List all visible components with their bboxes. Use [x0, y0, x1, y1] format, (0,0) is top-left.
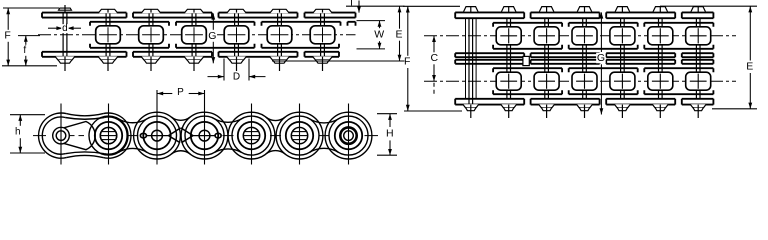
duplex outer plate pair 4 band 3, view C	[682, 60, 714, 64]
roller 7 horizontal centerline, view A	[314, 34, 332, 36]
duplex inner plate 1 edge 3, view C	[493, 68, 562, 72]
outer link plate pair 1 top band, view A	[42, 13, 127, 18]
pin head bottom, pin 3 view A step1	[141, 56, 161, 60]
duplex outer plate pair 1 band 1, view C	[455, 12, 524, 18]
duplex F top extension line	[403, 5, 460, 7]
inner link plate 3 bottom edge, view A	[262, 44, 340, 48]
svg-text:H: H	[386, 128, 394, 140]
inner link plate 1 bottom edge, view A	[90, 44, 169, 48]
svg-text:F: F	[4, 30, 10, 42]
outer link plate pair 2 top band, view A	[133, 13, 212, 18]
duplex outer plate pair 4 band 1, view C	[682, 12, 714, 18]
duplex roller 5 strand 2 rect, view C	[610, 72, 635, 90]
dimension G, view A	[212, 13, 214, 29]
pin 1 cross-section circle, view B	[56, 131, 66, 141]
F top extension line, view A	[3, 7, 59, 9]
link plate end contours at pin 3, view B	[134, 112, 181, 159]
roller, bushing ring, pin at pin 7 (end), view B	[335, 122, 362, 149]
duplex inner plate 2 edge 1, view C	[569, 23, 638, 27]
duplex F bottom extension line	[404, 110, 462, 112]
svg-text:G: G	[597, 52, 605, 64]
duplex inner plate 3 edge 4, view C	[644, 90, 713, 94]
duplex pin 2 line through top cap	[508, 7, 510, 13]
svg-text:E: E	[395, 29, 402, 41]
duplex roller 5 strand 1 rect, view C	[610, 27, 635, 45]
pin head bottom, pin 3 view A step2	[144, 60, 158, 63]
pin 6, view A	[278, 13, 282, 26]
duplex pin 7 head top	[691, 7, 705, 12]
svg-text:P: P	[177, 87, 184, 98]
centerline dash at x=228.0, view B	[223, 135, 234, 137]
duplex roller 4 strand 2 rect, view C	[572, 72, 597, 90]
duplex pin 3 head bottom step2	[541, 108, 551, 111]
pin 6 vertical centerline, view B	[299, 104, 301, 165]
D right extension line	[248, 59, 250, 81]
duplex pin 5 line through top cap	[621, 7, 623, 13]
roller 3 horizontal centerline, view A	[142, 34, 160, 36]
link plate end contours at pin 6, view B	[276, 112, 323, 159]
duplex pin 3 line through top cap	[546, 7, 548, 13]
connecting pin side ticks, duplex pin 1	[466, 19, 477, 99]
duplex inner plate 3 edge 2, view C	[644, 45, 713, 49]
pin head bottom, pin 7 view A step1	[313, 56, 333, 60]
dash 2 inside clip, view B	[79, 135, 85, 137]
duplex outer plate pair 1 band 3, view C	[455, 60, 524, 64]
duplex pin 2 line through bottom cap and extension	[508, 105, 510, 118]
pin head bottom, pin 5 view A step2	[230, 60, 244, 63]
dash 1 inside clip, view B	[70, 135, 75, 137]
duplex pin 6 head bottom step1	[652, 104, 668, 107]
duplex outer plate pair 3 band 3, view C	[606, 60, 675, 64]
inner link plate 3 top edge, view A	[262, 22, 341, 26]
duplex pin 3 line through bottom cap and extension	[546, 105, 548, 118]
roller 6 horizontal centerline, view A	[271, 34, 289, 36]
E bottom extension line, view A	[272, 60, 405, 62]
inner link plate waist between x=108.5 and x=157, view B	[118, 119, 147, 123]
roller, bushing, pin at pin 5, view B	[238, 122, 265, 149]
duplex inner plate 3 edge 3, view C	[644, 68, 713, 72]
duplex pin 5 line through bottom cap and extension	[621, 105, 623, 118]
duplex pin 7 line through top cap	[697, 7, 699, 13]
duplex outer plate pair 2 band 2, view C	[531, 53, 600, 57]
duplex pin 4 line through top cap	[584, 7, 586, 13]
outer link plate pair 4 bottom band, view A	[305, 52, 340, 57]
duplex pin 6 line through bottom cap and extension	[659, 105, 661, 118]
outer link plate pair 2 bottom band, view A	[133, 52, 212, 57]
duplex outer plate pair 2 band 4, view C	[531, 99, 600, 105]
duplex inner plate 3 edge 1, view C	[644, 23, 713, 27]
duplex pin 3, view C	[545, 18, 549, 27]
link plate end contours at pin 2, view B	[89, 116, 128, 155]
duplex pin 1 head bottom step1	[463, 104, 479, 107]
inner link plate 2 bottom edge, view A	[176, 44, 255, 48]
duplex pin 1 line through bottom cap and extension	[470, 105, 472, 118]
duplex roller 6 strand 2 rect, view C	[648, 72, 673, 90]
duplex pin 1 head top	[464, 7, 478, 12]
duplex roller 7 strand 1 rect, view C	[686, 27, 711, 45]
duplex inner plate 1 edge 4, view C	[493, 90, 562, 94]
pin head top, pin 7 view A	[313, 9, 333, 13]
pin 7 line through bottom cap and extension, view A	[322, 57, 324, 71]
svg-text:C: C	[431, 52, 439, 64]
pin 7, view A	[321, 13, 325, 26]
W top extension line	[357, 20, 386, 22]
roller 4 horizontal centerline, view A	[185, 34, 203, 36]
duplex pin 3 head top	[539, 7, 553, 12]
duplex outer plate pair 2 band 3, view C	[531, 60, 600, 64]
duplex pin 5 head bottom step1	[614, 104, 630, 107]
svg-text:W: W	[374, 29, 384, 41]
outer link plate pair 3 top band, view A	[219, 13, 298, 18]
duplex pin 1 line through top cap	[470, 7, 472, 13]
D left extension line	[223, 59, 225, 81]
link plate end contours at pin 5, view B	[228, 112, 275, 159]
pin head bottom, pin 2 view A step2	[101, 60, 115, 63]
roller 2 horizontal centerline, view A	[99, 34, 117, 36]
centerline stub right, view B	[365, 135, 379, 137]
roller 3 vertical centerline, view A	[150, 27, 152, 42]
bottom extension line for F and f, view A	[2, 65, 57, 67]
cotter washer on connecting pin 1, view A	[59, 8, 72, 10]
pin head bottom, pin 5 view A step1	[227, 56, 247, 60]
centerline dash at x=275.5, view B	[270, 135, 281, 137]
pin 1, view A	[63, 13, 67, 57]
pin 5 line through top cap, view A	[236, 10, 238, 13]
duplex roller 2 strand 2 rect, view C	[496, 72, 521, 90]
duplex roller 2 strand 1 rect, view C	[496, 27, 521, 45]
pin 1 centerline above plate, view A	[64, 5, 66, 13]
d left tick	[62, 24, 64, 32]
pin head bottom, pin 4 view A step2	[187, 60, 201, 63]
dimension C (transverse pitch), view C	[433, 36, 435, 53]
roller 6 vertical centerline, view A	[279, 27, 281, 42]
roller 4 rounded rect, view A	[182, 26, 207, 44]
pin 7 vertical centerline, view B	[348, 104, 350, 165]
pin 4, view A	[192, 13, 196, 26]
duplex outer plate pair 4 band 4, view C	[682, 99, 714, 105]
duplex pin 6, view C	[659, 18, 663, 27]
cotter pin at pin 4 (prongs left, eye right), view B	[215, 133, 221, 138]
duplex pin 3 head bottom step1	[539, 104, 555, 107]
roller 6 rounded rect, view A	[267, 26, 292, 44]
pin 3 line through top cap, view A	[150, 10, 152, 13]
dimension G, view C middle	[600, 12, 602, 52]
roller, bushing, pin at pin 6, view B	[286, 122, 313, 149]
chain centerline view A	[38, 34, 356, 36]
duplex pin 4, view C	[583, 18, 587, 27]
link plate end contours at pin 4, view B	[181, 112, 228, 159]
duplex pin 7 head bottom step2	[693, 108, 703, 111]
centerline dash at x=324.0, view B	[319, 135, 330, 137]
outer link plate waist between x=157 and x=204.5, view B	[171, 117, 190, 120]
duplex pin 7, view C	[696, 18, 700, 27]
f top tick at centerline, view A	[18, 35, 40, 37]
roller, bushing, pin at pin 2, view B	[95, 122, 122, 149]
duplex pin 1 head bottom step2	[466, 108, 476, 111]
pin head top, pin 5 view A	[227, 9, 247, 13]
W bottom extension line	[357, 48, 386, 50]
pin head bottom, pin 7 view A step2	[316, 60, 330, 63]
pin head bottom, pin 1 view A step1	[55, 56, 75, 60]
pin 2, view A	[106, 13, 110, 26]
duplex outer plate pair 3 band 1, view C	[606, 12, 675, 18]
pin 5, view A	[235, 13, 239, 26]
pin head bottom, pin 1 view A step2	[58, 60, 72, 63]
duplex pin 4 head top	[577, 7, 591, 12]
duplex pin 6 head top	[653, 7, 667, 12]
pin 1 line through bottom cap and extension, view A	[64, 57, 66, 71]
clip small loop around pin 1, view B	[53, 127, 70, 144]
svg-text:G: G	[208, 30, 216, 42]
strand 2 centerline, view C	[424, 80, 736, 82]
duplex E bottom extension line	[712, 108, 757, 110]
pin 4 vertical centerline, view B	[204, 90, 206, 165]
pin 2 vertical centerline, view B	[108, 104, 110, 165]
label D view A	[232, 72, 241, 81]
duplex outer plate pair 3 band 2, view C	[606, 53, 675, 57]
duplex roller 4 strand 1 rect, view C	[572, 27, 597, 45]
roller 7 rounded rect, view A	[310, 26, 335, 44]
duplex pin 2 head bottom step2	[504, 108, 514, 111]
svg-text:f: f	[23, 45, 26, 56]
pin 3 vertical centerline, view B	[156, 90, 158, 165]
pin head bottom, pin 2 view A step1	[98, 56, 118, 60]
duplex roller 3 strand 1 rect, view C	[534, 27, 559, 45]
strand 1 centerline, view C	[424, 35, 736, 37]
pin 2 line through bottom cap and extension, view A	[107, 57, 109, 71]
roller and pin at pin 3, view B	[143, 122, 170, 149]
inner link plate waist between x=204.5 and x=251.5, view B	[214, 119, 241, 123]
duplex outer plate pair 2 band 1, view C	[531, 12, 600, 18]
roller 2 vertical centerline, view A	[107, 27, 109, 42]
inner link plate 4 top edge, view A	[348, 22, 356, 26]
roller and pin at pin 4, view B	[191, 122, 218, 149]
duplex pin 7 head bottom step1	[690, 104, 706, 107]
duplex pin 6 head bottom step2	[655, 108, 665, 111]
pin head top, pin 3 view A	[141, 9, 161, 13]
duplex pin 5, view C	[621, 18, 625, 27]
duplex roller 6 strand 1 rect, view C	[648, 27, 673, 45]
roller 2 rounded rect, view A	[96, 26, 121, 44]
duplex inner plate 1 edge 2, view C	[493, 45, 562, 49]
pin 5 vertical centerline, view B	[251, 104, 253, 165]
duplex pin 5 head top	[615, 7, 629, 12]
outer link plate waist between x=251.5 and x=299.5, view B	[266, 117, 285, 120]
pin 4 line through top cap, view A	[193, 10, 195, 13]
master connecting link plate (pins 1-2), view B	[39, 113, 67, 158]
h top tick	[10, 114, 45, 116]
roller 5 vertical centerline, view A	[236, 27, 238, 42]
centerline dash at x=132.8, view B	[127, 135, 138, 137]
duplex pin 5 head bottom step2	[617, 108, 627, 111]
C line dash below	[433, 83, 435, 94]
pin head bottom, pin 6 view A step2	[273, 60, 287, 63]
pin head top, pin 4 view A	[184, 9, 204, 13]
duplex inner plate 2 edge 2, view C	[569, 45, 638, 49]
roller 5 rounded rect, view A	[224, 26, 249, 44]
h bottom tick	[10, 152, 45, 154]
outer link plate pair 3 bottom band, view A	[219, 52, 298, 57]
svg-text:F: F	[404, 56, 410, 68]
roller 7 vertical centerline, view A	[322, 27, 324, 42]
roller 4 vertical centerline, view A	[193, 27, 195, 42]
duplex pin 4 head bottom step1	[577, 104, 593, 107]
duplex outer plate pair 1 band 2, view C	[455, 53, 524, 57]
H top tick	[377, 113, 397, 115]
duplex pin 4 head bottom step2	[579, 108, 589, 111]
connecting clip box in middle band, view C	[523, 56, 529, 65]
pin 1 vertical centerline, view B	[60, 104, 62, 165]
duplex outer plate pair 1 band 4, view C	[455, 99, 524, 105]
duplex roller 7 strand 2 rect, view C	[686, 72, 711, 90]
duplex roller 3 strand 2 rect, view C	[534, 72, 559, 90]
svg-text:E: E	[746, 61, 753, 73]
pin 6 line through top cap, view A	[279, 10, 281, 13]
duplex pin 2, view C	[507, 18, 511, 27]
duplex pin 6 line through top cap	[659, 7, 661, 13]
roller 3 rounded rect, view A	[139, 26, 164, 44]
dimension P (pitch), view B	[157, 93, 172, 95]
pin 4 line through bottom cap and extension, view A	[193, 57, 195, 71]
pin head bottom, pin 4 view A step1	[184, 56, 204, 60]
roller 5 horizontal centerline, view A	[228, 34, 246, 36]
duplex pin 7 line through bottom cap and extension	[697, 105, 699, 118]
link plate end contours at pin 7, view B	[325, 112, 372, 159]
svg-text:d: d	[62, 23, 68, 34]
pin 7 line through top cap, view A	[322, 10, 324, 13]
inner link plate waist between x=299.5 and x=348.5, view B	[309, 119, 338, 123]
duplex inner plate 2 edge 3, view C	[569, 68, 638, 72]
duplex pin 4 line through bottom cap and extension	[584, 105, 586, 118]
pin head top, pin 6 view A	[270, 9, 290, 13]
svg-text:D: D	[233, 71, 240, 82]
pin 3 line through bottom cap and extension, view A	[150, 57, 152, 71]
d right tick	[66, 24, 68, 32]
label G view A	[208, 31, 218, 42]
inner link plate 1 top edge, view A	[90, 22, 169, 26]
pin 2 bushing circle, view B	[100, 127, 116, 143]
duplex outer plate pair 4 band 2, view C	[682, 53, 714, 57]
duplex pin 2 head top	[502, 7, 516, 12]
top extension line right, view A	[346, 5, 405, 7]
svg-text:h: h	[15, 126, 21, 137]
H bottom tick	[377, 154, 397, 156]
outer link plate pair 4 top band, view A	[305, 13, 356, 18]
pin 3, view A	[149, 13, 153, 26]
cotter pin at pin 3 (eye left, prongs right), view B	[140, 133, 146, 138]
duplex inner plate 2 edge 4, view C	[569, 90, 638, 94]
pin 5 line through bottom cap and extension, view A	[236, 57, 238, 71]
duplex pin 1, view C	[469, 18, 473, 104]
duplex inner plate 1 edge 1, view C	[493, 23, 562, 27]
duplex pin 2 head bottom step1	[501, 104, 517, 107]
centerline stub left, view B	[33, 135, 46, 137]
pin head bottom, pin 6 view A step1	[270, 56, 290, 60]
pin head top, pin 2 view A	[98, 9, 118, 13]
pin 2 line through top cap, view A	[107, 10, 109, 13]
duplex E top extension line	[660, 5, 757, 7]
inner link plate 2 top edge, view A	[176, 22, 255, 26]
label G view C	[596, 53, 606, 64]
pin 6 line through bottom cap and extension, view A	[279, 57, 281, 71]
svg-text:I: I	[350, 0, 353, 9]
outer link plate pair 1 bottom band, view A	[42, 52, 127, 57]
duplex outer plate pair 3 band 4, view C	[606, 99, 675, 105]
